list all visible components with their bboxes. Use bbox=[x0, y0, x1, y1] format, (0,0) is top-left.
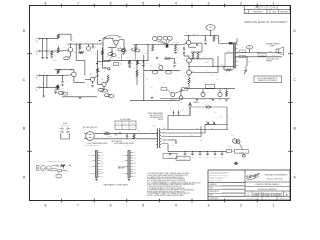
box label reverb drive bbox=[182, 87, 188, 90]
input jack J1 bbox=[34, 38, 41, 43]
filter capacitor C18 bbox=[206, 151, 209, 159]
svg-text:YEL: YEL bbox=[163, 135, 166, 137]
oscillator cap C10 bbox=[166, 70, 172, 74]
svg-text:10K: 10K bbox=[177, 45, 179, 47]
filter capacitor C17 bbox=[199, 151, 202, 159]
balloon P2 bbox=[246, 46, 252, 53]
value labels driver area bbox=[146, 48, 219, 84]
svg-text:3.3K: 3.3K bbox=[139, 62, 142, 64]
svg-text:4.7K: 4.7K bbox=[215, 38, 218, 40]
tone bottom parts bbox=[102, 60, 110, 72]
rectifier diode D3 bbox=[170, 109, 174, 114]
label ch1 values bbox=[52, 60, 57, 62]
rectifier diode D4 bbox=[178, 110, 182, 114]
chassis arrow bbox=[189, 101, 199, 115]
title block bbox=[208, 170, 290, 200]
zone row letters D-A bbox=[23, 29, 297, 179]
resistor R1 bbox=[57, 35, 61, 39]
resistor R2 bbox=[57, 46, 63, 53]
svg-text:RED: RED bbox=[196, 127, 199, 129]
wire rect bus bbox=[168, 115, 190, 130]
svg-text:TO SPKR: TO SPKR bbox=[239, 151, 244, 153]
supply rail stub ch1 bbox=[58, 33, 71, 35]
svg-text:7: 7 bbox=[77, 1, 79, 5]
transistor Q6 output lower bbox=[183, 67, 193, 79]
svg-text:RV-1: RV-1 bbox=[183, 89, 186, 91]
wire sec to bridge bbox=[168, 125, 205, 137]
transistor Q1 bbox=[58, 41, 75, 56]
svg-text:TR-1: TR-1 bbox=[163, 89, 166, 91]
svg-text:Q6: Q6 bbox=[90, 74, 92, 76]
resistor R3 bbox=[51, 51, 56, 58]
svg-text:BLU: BLU bbox=[134, 171, 136, 173]
terminal strip 120V wiring bbox=[87, 142, 107, 181]
value labels power amp output bbox=[185, 32, 275, 76]
svg-text:SYM: SYM bbox=[245, 11, 248, 13]
wire to output cap bbox=[213, 63, 233, 67]
resistor R25 bbox=[225, 89, 228, 102]
box label tone board bbox=[113, 63, 122, 67]
AC line wire neutral bbox=[94, 138, 157, 140]
svg-text:250K: 250K bbox=[127, 57, 130, 59]
wire J1 bus bbox=[41, 38, 58, 39]
svg-text:10K: 10K bbox=[131, 62, 133, 64]
resistor R8 bbox=[128, 60, 133, 67]
svg-text:WHT: WHT bbox=[101, 155, 104, 157]
transistor Q10 bbox=[201, 89, 206, 101]
wire ch2 out bbox=[74, 80, 85, 83]
svg-text:RED: RED bbox=[211, 128, 214, 130]
label balloon ch2 c bbox=[98, 88, 108, 92]
svg-text:BLK: BLK bbox=[101, 152, 103, 154]
resistor R21 bbox=[213, 36, 218, 42]
transformer secondary taps bbox=[161, 128, 168, 144]
svg-text:7: 7 bbox=[77, 203, 79, 207]
svg-text:ORG: ORG bbox=[101, 173, 104, 175]
svg-text:VOL: VOL bbox=[100, 64, 103, 66]
oscillator cap C9 bbox=[152, 70, 158, 74]
svg-text:SLO-BLO: SLO-BLO bbox=[108, 136, 113, 138]
transistor Q10b bbox=[218, 89, 222, 101]
svg-text:FS-100: FS-100 bbox=[63, 123, 68, 125]
svg-text:47K: 47K bbox=[137, 47, 139, 49]
svg-text:R31: R31 bbox=[177, 42, 179, 44]
svg-text:BLU: BLU bbox=[101, 171, 103, 173]
pa label column bbox=[177, 42, 198, 59]
wire feedback bbox=[191, 56, 219, 73]
arrow glyph tone bbox=[97, 40, 101, 44]
capacitor C12 bbox=[174, 45, 179, 54]
svg-text:68K: 68K bbox=[99, 71, 101, 73]
svg-text:6: 6 bbox=[110, 1, 112, 5]
wire stage out ch1 bbox=[68, 43, 103, 44]
capacitor C3 bbox=[103, 36, 110, 39]
svg-text:1M: 1M bbox=[44, 71, 46, 73]
box label J output 1 bbox=[240, 50, 245, 53]
svg-text:BELOW: BELOW bbox=[158, 119, 164, 121]
transistor Q5 output upper bbox=[183, 56, 193, 67]
wire trem bottom bus bbox=[130, 100, 180, 101]
pot arrow mid bbox=[96, 63, 102, 66]
svg-text:10K: 10K bbox=[81, 47, 83, 49]
svg-text:2.2K: 2.2K bbox=[177, 52, 180, 54]
resistor R10 bbox=[57, 69, 62, 73]
wire dc rail 2 bbox=[168, 129, 228, 130]
svg-text:SE DELUXE / FENDER 04: SE DELUXE / FENDER 04 bbox=[258, 189, 277, 191]
vertical wire ch2 to tone bbox=[97, 50, 98, 78]
notes list bbox=[147, 172, 201, 197]
svg-text:10K: 10K bbox=[140, 57, 142, 59]
pot balloon ch mix 2 bbox=[163, 36, 172, 45]
svg-text:GRN: GRN bbox=[269, 50, 272, 52]
resistor R4 bbox=[79, 44, 84, 50]
resistor R23 bbox=[197, 52, 201, 59]
svg-text:WHT: WHT bbox=[122, 155, 125, 157]
zone column numbers 8-1 bbox=[44, 1, 274, 207]
filter capacitor C16 bbox=[191, 151, 194, 159]
svg-text:22K: 22K bbox=[109, 78, 111, 80]
manufacturer logo bbox=[246, 172, 261, 181]
fuse F1 bbox=[102, 129, 110, 134]
svg-text:100K: 100K bbox=[164, 56, 167, 58]
box label ext spkr bbox=[258, 54, 266, 57]
svg-text:RED: RED bbox=[101, 163, 104, 165]
svg-text:Q4: Q4 bbox=[184, 38, 186, 40]
transistor Q4 driver bbox=[184, 36, 191, 48]
capacitor C14 line bbox=[126, 134, 130, 139]
svg-text:1: 1 bbox=[273, 203, 275, 207]
svg-text:GRY: GRY bbox=[101, 176, 104, 178]
svg-text:PILOT: PILOT bbox=[229, 146, 233, 148]
vertical wire trem feed bbox=[143, 55, 145, 100]
capacitor C7 bbox=[61, 75, 65, 86]
svg-text:SLV: SLV bbox=[68, 171, 70, 173]
footswitch detail bbox=[60, 123, 70, 139]
svg-text:BLK: BLK bbox=[273, 55, 275, 57]
wire tone branch bbox=[98, 61, 111, 63]
svg-text:B: B bbox=[286, 193, 288, 197]
svg-text:GRN: GRN bbox=[163, 138, 166, 140]
label pair top bbox=[98, 40, 103, 44]
bass pot balloons bbox=[131, 48, 139, 60]
tremolo transistor Q12 bbox=[167, 89, 183, 100]
svg-text:1M: 1M bbox=[60, 36, 62, 38]
vertical wire mixer bbox=[102, 38, 104, 60]
svg-text:RED: RED bbox=[134, 163, 137, 165]
capacitor C11 bbox=[149, 45, 154, 52]
svg-text:RED: RED bbox=[163, 131, 166, 133]
svg-text:6.3V: 6.3V bbox=[191, 135, 194, 137]
pilot lamp LP1 bbox=[229, 139, 243, 149]
pa ground bus bbox=[160, 98, 230, 99]
svg-text:GRN: GRN bbox=[101, 157, 104, 159]
wire rail ch2 bbox=[58, 69, 74, 71]
svg-text:GRN: GRN bbox=[134, 157, 137, 159]
capacitor C6 bbox=[142, 60, 145, 66]
svg-text:Q3: Q3 bbox=[118, 37, 120, 39]
value labels input stages bbox=[44, 35, 97, 86]
resistor R11 bbox=[57, 84, 63, 90]
svg-text:(P-100): (P-100) bbox=[96, 145, 101, 147]
svg-text:SB: SB bbox=[132, 127, 134, 129]
AC plug bbox=[84, 132, 94, 141]
ground Q6 bbox=[91, 86, 94, 87]
svg-text:T1: T1 bbox=[153, 126, 155, 128]
transformer T1 windings bbox=[153, 126, 161, 148]
svg-text:D-10: D-10 bbox=[177, 57, 180, 59]
resistor R15b bbox=[107, 75, 112, 82]
svg-text:FUSE: FUSE bbox=[131, 123, 134, 125]
svg-text:(P-100): (P-100) bbox=[125, 145, 130, 147]
svg-text:WHT: WHT bbox=[89, 155, 92, 157]
filter capacitor C20 bbox=[221, 151, 224, 159]
ground stem ch1 b bbox=[46, 51, 49, 59]
svg-text:BLU: BLU bbox=[122, 160, 124, 162]
ground stub mid bbox=[92, 44, 97, 49]
svg-text:BLK: BLK bbox=[122, 173, 124, 175]
svg-text:MUSICAL INSTRUMENTS: MUSICAL INSTRUMENTS bbox=[265, 174, 288, 177]
svg-text:5: 5 bbox=[142, 203, 144, 207]
transistor Q2 bbox=[85, 44, 91, 54]
svg-text:PM-1: PM-1 bbox=[209, 86, 212, 88]
svg-text:2: 2 bbox=[240, 1, 242, 5]
sheet border frame bbox=[30, 6, 291, 201]
balloon gain label bbox=[64, 56, 71, 60]
svg-text:FOOTSWITCH: FOOTSWITCH bbox=[61, 125, 69, 127]
svg-text:INPUT 1: INPUT 1 bbox=[52, 60, 57, 62]
driver collector wire bbox=[191, 43, 202, 52]
ground stem ch1 bbox=[41, 39, 44, 59]
svg-text:+36V: +36V bbox=[193, 34, 196, 36]
ground pa 2 bbox=[212, 99, 215, 100]
pa bottom rail bbox=[184, 84, 235, 89]
input jack J4 bbox=[34, 86, 41, 91]
revision block bbox=[244, 6, 290, 14]
svg-text:EXT SP: EXT SP bbox=[260, 55, 264, 57]
wire trem osc bus bbox=[144, 69, 180, 71]
svg-text:BRN: BRN bbox=[101, 169, 104, 171]
molded plug detail bbox=[36, 160, 71, 181]
svg-text:TIP: TIP bbox=[66, 165, 68, 167]
svg-text:.7V: .7V bbox=[196, 56, 198, 58]
svg-text:10K: 10K bbox=[78, 50, 80, 52]
diode string D8 bbox=[183, 47, 185, 56]
output inductor bbox=[224, 67, 233, 75]
resistor R19 bbox=[166, 45, 170, 49]
svg-text:R E V I S I O N S: R E V I S I O N S bbox=[256, 8, 279, 10]
svg-text:3: 3 bbox=[207, 203, 209, 207]
svg-text:10K: 10K bbox=[66, 79, 68, 81]
svg-text:250K: 250K bbox=[117, 57, 120, 59]
svg-text:P2: P2 bbox=[249, 47, 251, 49]
resistor R15 bbox=[97, 69, 102, 73]
labels mixer right bbox=[174, 42, 181, 44]
ground stem ch2 bbox=[42, 75, 45, 97]
svg-text:4: 4 bbox=[175, 203, 177, 207]
svg-text:RED: RED bbox=[134, 160, 137, 162]
svg-text:GND: GND bbox=[57, 178, 60, 180]
wire pa out node bbox=[188, 66, 213, 67]
ground trem bus bbox=[151, 97, 154, 98]
svg-text:BLK: BLK bbox=[134, 152, 136, 154]
transistor Q11 bbox=[179, 89, 183, 104]
svg-text:Q7: Q7 bbox=[102, 79, 104, 81]
svg-text:WHT: WHT bbox=[134, 155, 137, 157]
svg-text:1: 1 bbox=[273, 1, 275, 5]
svg-text:NFB: NFB bbox=[206, 70, 208, 72]
svg-text:1M: 1M bbox=[44, 35, 46, 37]
svg-text:22K: 22K bbox=[146, 79, 148, 81]
terminal box right bbox=[226, 150, 248, 158]
input jack J2 bbox=[34, 50, 41, 55]
svg-text:FS: FS bbox=[104, 71, 106, 73]
resistor R13 bbox=[56, 85, 58, 88]
resistor R17 bbox=[164, 56, 171, 60]
svg-text:+34V: +34V bbox=[228, 51, 231, 53]
bridge diode D6 bbox=[205, 121, 216, 125]
wire trem jog bbox=[136, 62, 138, 85]
top rail wire bbox=[184, 34, 233, 44]
wire chassis drop bbox=[189, 114, 191, 117]
svg-text:4: 4 bbox=[175, 1, 177, 5]
vertical pa right bbox=[212, 59, 214, 67]
svg-text:Q11: Q11 bbox=[180, 102, 182, 104]
svg-text:50V: 50V bbox=[217, 78, 219, 80]
svg-text:BRN: BRN bbox=[134, 169, 137, 171]
svg-text:22K: 22K bbox=[184, 51, 186, 53]
wire Q1 collector bbox=[71, 34, 74, 41]
svg-text:1M: 1M bbox=[134, 68, 136, 70]
resistor R22 bbox=[190, 52, 202, 59]
value labels power supply bbox=[96, 109, 235, 147]
svg-text:GRN: GRN bbox=[249, 61, 252, 63]
svg-text:6: 6 bbox=[110, 203, 112, 207]
svg-text:SHEET 1 OF 1: SHEET 1 OF 1 bbox=[279, 198, 288, 200]
transistor Q6 bbox=[85, 74, 97, 84]
supply rail stub ch2 bbox=[55, 69, 61, 72]
svg-text:BLK: BLK bbox=[90, 173, 92, 175]
wire preamp to driver bbox=[133, 44, 184, 46]
resistor R16 bbox=[134, 68, 138, 77]
svg-text:240V: 240V bbox=[124, 123, 127, 125]
svg-text:1M: 1M bbox=[50, 72, 52, 74]
svg-text:TP1: TP1 bbox=[209, 27, 212, 29]
emitter resistor R24 bbox=[188, 78, 193, 84]
fuse chart table bbox=[115, 118, 136, 129]
test point balloon TP1 bbox=[206, 25, 215, 36]
box label pc-100 bbox=[176, 157, 190, 161]
svg-text:DESCRIPTION: DESCRIPTION bbox=[253, 11, 262, 13]
svg-text:50V: 50V bbox=[197, 111, 199, 113]
wire jack join bbox=[46, 39, 48, 51]
svg-text:SERVICE MANUAL DOCUMENT: SERVICE MANUAL DOCUMENT bbox=[245, 21, 288, 24]
fuse F2 bbox=[190, 102, 227, 115]
ground trem top bbox=[156, 58, 159, 59]
power switch S1 bbox=[112, 132, 123, 143]
filter capacitor C15 bbox=[184, 151, 187, 159]
svg-text:1000: 1000 bbox=[191, 157, 194, 159]
box label J output 2 bbox=[240, 55, 245, 58]
output wire lower bbox=[236, 56, 283, 57]
wire J4 bus bbox=[41, 87, 58, 88]
svg-text:GRN: GRN bbox=[163, 142, 166, 144]
AC line wire hot bbox=[94, 133, 157, 135]
wire J2 bus bbox=[41, 50, 58, 51]
connector P1 edge strip bbox=[233, 38, 239, 68]
svg-text:Q8: Q8 bbox=[158, 64, 160, 66]
svg-text:120V: 120V bbox=[117, 123, 120, 125]
volume pot balloons bbox=[108, 53, 116, 61]
wire ch2 lower bus bbox=[62, 97, 97, 99]
svg-text:1M: 1M bbox=[50, 35, 52, 37]
value labels tone tremolo bbox=[106, 53, 179, 94]
resistor feed tone bbox=[101, 48, 103, 61]
wire jack join 2 bbox=[46, 75, 48, 87]
svg-text:1M: 1M bbox=[54, 55, 56, 57]
svg-text:5088: 5088 bbox=[74, 52, 77, 54]
supply label B plus bbox=[224, 51, 236, 67]
wire bridge out bbox=[205, 107, 228, 129]
bridge diode D5 bbox=[206, 121, 209, 124]
svg-text:22K: 22K bbox=[90, 50, 92, 52]
svg-text:5: 5 bbox=[142, 1, 144, 5]
svg-text:Genova, OH U.S.A.: Genova, OH U.S.A. bbox=[266, 178, 283, 181]
resistor R14 bbox=[78, 50, 84, 54]
cluster ch2 mid bbox=[54, 90, 57, 94]
speaker label bottom bbox=[266, 57, 278, 62]
zone boundary tick marks bbox=[27, 4, 293, 203]
service manual note bbox=[245, 21, 288, 24]
svg-text:3: 3 bbox=[207, 1, 209, 5]
label balloon ch2 d bbox=[104, 94, 114, 98]
wire filter bus bbox=[168, 144, 226, 152]
svg-text:WHT: WHT bbox=[89, 166, 92, 168]
transistor Q8 bbox=[158, 64, 163, 71]
resistor R7 bbox=[120, 40, 128, 55]
capacitor C4 bbox=[108, 48, 116, 57]
svg-text:Q5: Q5 bbox=[71, 70, 73, 72]
voltage chart box bbox=[163, 154, 177, 159]
vertical ch1 to ch2 wire bbox=[76, 43, 85, 75]
svg-text:RED: RED bbox=[101, 160, 104, 162]
wire driver emitter bus bbox=[189, 47, 213, 59]
svg-text:8: 8 bbox=[44, 203, 46, 207]
svg-text:47K: 47K bbox=[61, 88, 63, 90]
svg-text:R33: R33 bbox=[177, 49, 179, 51]
resistor R9b bbox=[137, 60, 142, 64]
svg-text:ORG: ORG bbox=[134, 173, 137, 175]
interconnect caption bbox=[104, 184, 129, 187]
svg-text:(120V) MOLDED PLUG: (120V) MOLDED PLUG bbox=[84, 145, 97, 147]
ground output bbox=[244, 66, 247, 74]
svg-text:8: 8 bbox=[44, 1, 46, 5]
svg-text:22K: 22K bbox=[101, 42, 103, 44]
transistor Q3 bbox=[108, 37, 120, 48]
svg-text:MINIMUM: MINIMUM bbox=[266, 60, 272, 62]
svg-text:Q1: Q1 bbox=[67, 44, 69, 46]
ground filter bus bbox=[169, 153, 172, 154]
wire J3 bus bbox=[41, 75, 58, 76]
shield arc over wire bbox=[104, 35, 122, 38]
svg-text:BLU: BLU bbox=[90, 160, 92, 162]
diode D7 bbox=[168, 138, 177, 143]
wire speaker drop bbox=[247, 57, 251, 66]
label balloon ch2 a bbox=[58, 91, 68, 95]
svg-text:+24V: +24V bbox=[181, 145, 184, 147]
input jack J3 bbox=[34, 74, 41, 79]
resistor R18 bbox=[135, 44, 149, 61]
svg-text:2: 2 bbox=[240, 203, 242, 207]
